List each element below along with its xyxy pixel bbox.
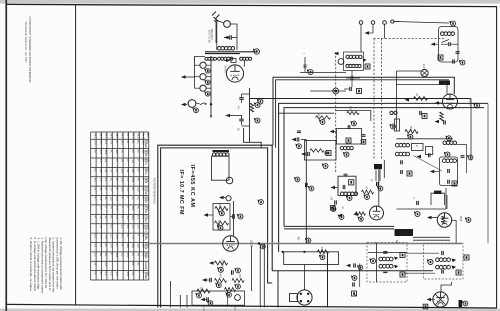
discriminator box left dashed xyxy=(367,243,407,283)
arrow filter xyxy=(226,114,231,117)
disc R boxref xyxy=(456,270,461,275)
det callout xyxy=(463,301,468,306)
resistor 470K xyxy=(232,279,244,283)
audio section frame outer xyxy=(158,145,272,307)
bus bottom tick xyxy=(210,116,212,119)
svg-text:2.1: 2.1 xyxy=(93,234,97,238)
volume control hatching xyxy=(213,150,230,152)
svg-text:1M: 1M xyxy=(330,197,332,200)
AVC bus xyxy=(272,270,433,272)
IF transformer T1 arrow xyxy=(334,52,339,55)
svg-text:19T8: 19T8 xyxy=(144,178,147,184)
svg-text:0V: 0V xyxy=(93,262,97,265)
resistor 47K xyxy=(215,279,227,283)
bus segment right of output transformer xyxy=(413,236,450,238)
volume control box xyxy=(212,156,230,180)
audio section frame inner xyxy=(161,148,273,308)
resistor 500K xyxy=(225,288,236,292)
audio grid box xyxy=(213,204,230,231)
bus double lower xyxy=(284,228,394,230)
disc R circle xyxy=(428,259,433,264)
svg-text:6.3: 6.3 xyxy=(137,215,141,219)
cap in FM RF box xyxy=(447,169,449,173)
svg-text:6.3: 6.3 xyxy=(104,178,108,182)
IF T1 circle xyxy=(338,59,344,65)
filter callout 2 xyxy=(255,118,260,123)
arrow cluster xyxy=(338,214,343,217)
svg-text:AC: AC xyxy=(104,159,108,163)
svg-text:6AQ5: 6AQ5 xyxy=(144,196,147,203)
svg-text:6.3: 6.3 xyxy=(120,234,124,238)
svg-text:38V: 38V xyxy=(99,168,103,173)
resistor 1.5MEG xyxy=(215,261,228,265)
callout 47 conv xyxy=(365,195,370,200)
svg-text:-7.5: -7.5 xyxy=(131,234,135,239)
wire y138 xyxy=(397,138,454,140)
mixer tube V2 xyxy=(370,206,384,220)
ant coil a xyxy=(395,143,399,147)
svg-text:38V: 38V xyxy=(126,243,130,248)
disc R coil a xyxy=(436,258,440,262)
wire y72 xyxy=(300,72,346,74)
screen box around output xyxy=(284,252,339,265)
boxref in FM RF box xyxy=(452,181,457,186)
callout out xyxy=(208,301,213,306)
disc wire down xyxy=(441,282,452,292)
rectifier plate wire xyxy=(220,59,222,61)
svg-text:270: 270 xyxy=(93,140,97,145)
svg-text:AC: AC xyxy=(137,140,141,144)
wire tone xyxy=(224,197,226,199)
AFC wire xyxy=(397,70,422,72)
wire y209 xyxy=(397,208,447,210)
junction dot circled xyxy=(333,88,339,94)
wire bottom center a xyxy=(251,246,253,291)
svg-text:95V: 95V xyxy=(131,215,135,220)
cap below T1 b xyxy=(349,87,351,91)
cap rb xyxy=(353,263,355,267)
svg-text:-1V: -1V xyxy=(126,215,130,219)
osc cap callout xyxy=(308,70,313,75)
wire left of speaker box 1 xyxy=(259,247,261,308)
arrow osc upper xyxy=(330,130,335,133)
FM tuner callout xyxy=(451,21,456,26)
B plus bus xyxy=(250,98,471,100)
svg-text:270: 270 xyxy=(110,243,114,248)
osc tube callout xyxy=(466,218,471,223)
callout on bus xyxy=(258,99,263,104)
svg-text:270: 270 xyxy=(115,234,119,239)
bus double upper xyxy=(284,225,394,227)
scan edge dark line left xyxy=(5,0,7,311)
svg-text:38V: 38V xyxy=(131,243,135,248)
disc R coil b xyxy=(436,265,440,269)
AC plug xyxy=(214,17,219,22)
vert rb xyxy=(359,264,361,288)
resistor 47 conv xyxy=(362,190,374,194)
svg-text:-1V: -1V xyxy=(110,187,114,191)
volume coil xyxy=(212,153,215,156)
cap cluster xyxy=(334,200,336,204)
disc R flag b xyxy=(452,266,457,270)
svg-text:AFC: AFC xyxy=(422,64,425,69)
svg-text:AC: AC xyxy=(110,215,114,219)
conv callout a xyxy=(323,164,328,169)
phono callout xyxy=(194,108,199,113)
svg-text:270: 270 xyxy=(115,197,119,202)
osc cap2 xyxy=(342,185,344,189)
power transformer T-P primary xyxy=(218,46,222,50)
svg-text:-1V: -1V xyxy=(110,140,114,144)
svg-text:Pin 3: Pin 3 xyxy=(104,133,106,139)
page border right xyxy=(496,7,498,309)
ant coil c xyxy=(442,159,446,163)
svg-text:2.1: 2.1 xyxy=(120,225,124,229)
svg-text:270: 270 xyxy=(115,206,119,211)
RF tube callout xyxy=(475,103,480,108)
heater callout 3 xyxy=(206,92,211,97)
callout 600 xyxy=(320,255,325,260)
tuning bar black xyxy=(439,81,450,86)
coupling cap xyxy=(232,214,234,219)
svg-text:6V: 6V xyxy=(131,262,135,265)
svg-text:4.7K: 4.7K xyxy=(202,307,204,311)
wire switch right xyxy=(230,24,237,34)
svg-text:6V: 6V xyxy=(137,168,141,171)
disc L coil b xyxy=(379,264,383,268)
svg-text:12SQ7: 12SQ7 xyxy=(144,215,147,223)
svg-text:2.1: 2.1 xyxy=(137,225,141,229)
svg-text:35W4: 35W4 xyxy=(144,168,147,175)
svg-text:0V: 0V xyxy=(137,253,141,256)
svg-text:6.3: 6.3 xyxy=(99,178,103,182)
svg-text:-7.5: -7.5 xyxy=(99,234,103,239)
page border bottom xyxy=(6,304,497,308)
schematic left rule xyxy=(75,5,77,306)
cap E right xyxy=(416,201,418,205)
RF section frame inner xyxy=(284,108,484,227)
svg-text:-1V: -1V xyxy=(110,168,114,172)
svg-text:6V: 6V xyxy=(131,140,135,143)
svg-text:38V: 38V xyxy=(131,168,135,173)
coil right y142 xyxy=(447,136,452,141)
svg-text:-1V: -1V xyxy=(131,159,135,163)
svg-text:0V: 0V xyxy=(115,243,119,246)
speaker feed wire xyxy=(303,265,305,291)
svg-text:270: 270 xyxy=(99,140,103,145)
osc cap top xyxy=(344,173,348,175)
svg-text:6. Volume control at maximum,: 6. Volume control at maximum, no signal. xyxy=(29,238,33,292)
svg-text:NC: NC xyxy=(137,262,141,266)
detector tube V7 xyxy=(433,292,448,307)
cap rb2 xyxy=(352,282,354,286)
svg-text:12AU6: 12AU6 xyxy=(144,187,147,195)
svg-text:.001: .001 xyxy=(238,274,240,279)
osc cap stem xyxy=(304,57,306,64)
svg-text:AC: AC xyxy=(104,253,108,257)
svg-text:1.2: 1.2 xyxy=(120,253,124,257)
filter wires xyxy=(226,115,242,117)
RF frame right edge outer xyxy=(487,104,489,244)
conv callout b xyxy=(344,152,349,157)
boxref am ant xyxy=(326,151,331,156)
svg-text:6.3: 6.3 xyxy=(126,187,130,191)
IF T1 boxref xyxy=(365,64,370,69)
arrow 47 xyxy=(405,98,410,101)
callout 4700 xyxy=(320,120,325,125)
filter callout 1 xyxy=(255,103,260,108)
svg-text:1.2: 1.2 xyxy=(99,215,103,219)
callout E right xyxy=(415,212,420,217)
svg-text:2.1: 2.1 xyxy=(110,234,114,238)
ant cap e xyxy=(400,170,402,174)
FM tuner callout2 xyxy=(460,60,465,65)
svg-text:6.3: 6.3 xyxy=(104,272,108,276)
svg-text:270: 270 xyxy=(99,150,103,155)
svg-text:M: M xyxy=(415,145,418,147)
svg-text:Pin 6: Pin 6 xyxy=(121,133,123,139)
svg-text:1.2: 1.2 xyxy=(99,159,103,163)
disc R cap top xyxy=(441,251,443,255)
arrow audio in xyxy=(204,213,209,216)
svg-text:Pin 8: Pin 8 xyxy=(131,133,133,139)
ant boxref f xyxy=(407,171,412,176)
svg-text:0V: 0V xyxy=(93,187,97,190)
svg-text:12SK7: 12SK7 xyxy=(144,225,147,233)
disc R flag a xyxy=(452,259,457,263)
FM tuner coil xyxy=(440,32,444,36)
bus from switch to B minus xyxy=(210,56,212,117)
ant box 2 xyxy=(426,147,433,155)
heater chain wire xyxy=(194,57,205,63)
callout r220k xyxy=(219,211,224,216)
resistor cluster xyxy=(356,212,366,215)
on-off switch circle xyxy=(224,21,231,28)
svg-text:12AV6: 12AV6 xyxy=(144,262,147,270)
rectifier tube V5 5Y3GT xyxy=(226,65,243,82)
small coil right of frame xyxy=(390,111,393,114)
callout 001 xyxy=(236,268,241,273)
svg-text:60 CYCLES: 60 CYCLES xyxy=(207,30,210,43)
callout r33meg xyxy=(218,225,223,230)
disc L boxref b xyxy=(400,272,405,277)
IF T1 frame xyxy=(344,52,364,71)
B+ feed wire xyxy=(244,128,262,148)
svg-text:1.2: 1.2 xyxy=(104,262,108,266)
tone terminal xyxy=(226,196,231,201)
svg-text:6.3: 6.3 xyxy=(99,197,103,201)
terminal post 4 wire xyxy=(394,21,400,23)
svg-text:Pin 2: Pin 2 xyxy=(99,133,101,139)
RF section frame outer xyxy=(279,103,488,251)
tube voltage chart grid xyxy=(90,132,92,280)
scan gray strip top xyxy=(0,0,500,4)
disc L boxref a xyxy=(400,253,405,258)
det black rect xyxy=(459,300,463,307)
svg-text:Pin 9: Pin 9 xyxy=(137,133,139,139)
callout cluster2 xyxy=(331,206,336,211)
phono switch blade xyxy=(196,103,200,105)
callout below small coil xyxy=(391,124,396,129)
svg-text:NC: NC xyxy=(110,178,114,182)
boxref osc upper xyxy=(346,138,351,143)
audio bus vertical xyxy=(233,201,235,236)
output grid box xyxy=(192,291,245,305)
terminal post 1 xyxy=(359,21,363,25)
disc R cap bottom xyxy=(441,269,443,273)
svg-text:2.1: 2.1 xyxy=(131,272,135,276)
resistor 5600 xyxy=(405,130,418,134)
svg-text:Pin 10: Pin 10 xyxy=(141,133,143,140)
svg-text:12BA6: 12BA6 xyxy=(144,140,147,148)
svg-text:AC: AC xyxy=(93,168,97,172)
svg-text:AC: AC xyxy=(137,197,141,201)
rectifier cathode wire xyxy=(243,61,246,67)
arrow RF tube xyxy=(435,101,440,104)
FM tuner cap2 xyxy=(452,59,454,63)
heater of tube 2 xyxy=(200,74,206,80)
svg-text:38V: 38V xyxy=(131,178,135,183)
FM tuner boxref xyxy=(438,55,443,60)
short bus at junction xyxy=(310,90,346,92)
dial lamp arrow xyxy=(181,75,186,78)
IF T1 coil bottom xyxy=(346,64,349,67)
speaker box xyxy=(277,271,279,308)
svg-text:0V: 0V xyxy=(126,140,130,143)
speaker plug circle xyxy=(297,290,312,305)
svg-text:95V: 95V xyxy=(120,187,124,192)
svg-text:AC: AC xyxy=(99,253,103,257)
svg-text:95V: 95V xyxy=(126,253,130,258)
phono jack J1 xyxy=(188,100,196,108)
svg-text:50C5: 50C5 xyxy=(144,159,147,165)
T-P secondary mid xyxy=(218,57,221,60)
svg-text:6.3: 6.3 xyxy=(126,225,130,229)
wire terminal4 to tuner xyxy=(394,22,449,24)
arrow FM tuner xyxy=(431,42,436,45)
disc wiring low xyxy=(404,272,435,274)
arrow tone xyxy=(219,196,224,199)
power transformer core xyxy=(205,51,256,53)
svg-text:Pin 1: Pin 1 xyxy=(94,133,96,139)
svg-text:2.1: 2.1 xyxy=(131,253,135,257)
arrow mid right xyxy=(435,120,440,123)
osc callout xyxy=(347,196,352,201)
IF T1 coil top xyxy=(346,55,349,58)
svg-text:-7.5: -7.5 xyxy=(104,234,108,239)
boxref below T1 xyxy=(357,89,362,94)
svg-text:-1V: -1V xyxy=(126,168,130,172)
vertical x471 xyxy=(470,99,472,161)
osc boxref xyxy=(349,180,354,185)
IF T1 flag xyxy=(363,59,367,62)
switch linkage dashed xyxy=(335,52,337,173)
svg-text:225: 225 xyxy=(234,307,236,311)
resistor 3.3MEG xyxy=(215,221,229,225)
disc L cap a xyxy=(383,251,387,253)
svg-text:NC: NC xyxy=(120,150,124,154)
cap mid right xyxy=(419,111,421,115)
svg-text:110: 110 xyxy=(93,178,97,183)
svg-text:110: 110 xyxy=(137,187,141,192)
resistor 4700 xyxy=(316,116,331,119)
resistor 220K low xyxy=(197,289,210,293)
wire x187 xyxy=(186,295,188,308)
cap lower left conv xyxy=(305,183,307,187)
svg-text:110: 110 xyxy=(137,243,141,248)
svg-text:6.3: 6.3 xyxy=(99,206,103,210)
ant box M xyxy=(412,144,424,151)
svg-text:22K: 22K xyxy=(349,106,351,111)
output transformer core xyxy=(395,229,414,236)
svg-text:6BE6: 6BE6 xyxy=(144,253,147,260)
callout 500k xyxy=(227,292,232,297)
svg-text:95V: 95V xyxy=(120,140,124,145)
svg-text:NC: NC xyxy=(110,150,114,154)
bus segment right of output transformer 2 xyxy=(413,239,450,241)
wire x180 xyxy=(179,295,181,308)
svg-text:0V: 0V xyxy=(131,150,135,153)
svg-text:270: 270 xyxy=(115,272,119,277)
filter cap C30A xyxy=(239,97,244,99)
svg-text:6.3: 6.3 xyxy=(110,225,114,229)
junction on ground bus xyxy=(258,242,260,244)
svg-text:6V: 6V xyxy=(126,234,130,237)
svg-text:110: 110 xyxy=(110,197,114,202)
svg-text:AC: AC xyxy=(131,197,135,201)
svg-text:Pin 4: Pin 4 xyxy=(110,133,112,139)
callout 47k xyxy=(216,283,221,288)
arrow at terminal 2 xyxy=(365,31,370,34)
box on left vertical xyxy=(395,119,400,131)
cap in osc upper xyxy=(347,125,349,129)
svg-text:Pin 7: Pin 7 xyxy=(126,133,128,139)
junction dots on screen box xyxy=(282,251,284,253)
svg-text:A PHOTOFACT STANDARD NOTATION: A PHOTOFACT STANDARD NOTATION SCHEMATIC xyxy=(28,17,32,83)
svg-text:2.1: 2.1 xyxy=(131,225,135,229)
dashed gang line top xyxy=(374,38,445,40)
svg-text:IF= 10.7 MC FM: IF= 10.7 MC FM xyxy=(178,170,184,215)
arrow to line cap xyxy=(224,36,229,39)
FM RF coil box xyxy=(440,157,458,185)
resistor 600 xyxy=(318,250,329,254)
arrow osc tube xyxy=(427,216,432,219)
am ant box xyxy=(305,141,337,161)
callout 5600 xyxy=(408,134,413,139)
svg-text:Item: Item xyxy=(146,133,149,138)
speaker plug shell xyxy=(290,294,298,302)
tuning gang flag xyxy=(431,193,445,205)
arrow osc xyxy=(331,186,336,189)
grid bus lower xyxy=(276,80,449,148)
callout lower left conv xyxy=(309,186,314,191)
svg-text:6V: 6V xyxy=(99,272,103,275)
svg-text:0V: 0V xyxy=(93,272,97,275)
filter cap C30B xyxy=(239,118,244,120)
ant callout A xyxy=(445,152,450,157)
cap right conv xyxy=(376,182,378,186)
wire x170 xyxy=(169,281,171,308)
discriminator box right dashed xyxy=(424,243,464,279)
dashed vertical a xyxy=(373,39,375,161)
vertical wire x307 xyxy=(301,139,306,141)
arrow det xyxy=(427,298,432,301)
svg-text:12AT6: 12AT6 xyxy=(144,149,147,157)
svg-text:Pin 5: Pin 5 xyxy=(115,133,117,139)
black rect conv xyxy=(374,164,382,169)
grid bus upper xyxy=(273,77,454,145)
wire left of speaker box 2 xyxy=(263,244,265,308)
